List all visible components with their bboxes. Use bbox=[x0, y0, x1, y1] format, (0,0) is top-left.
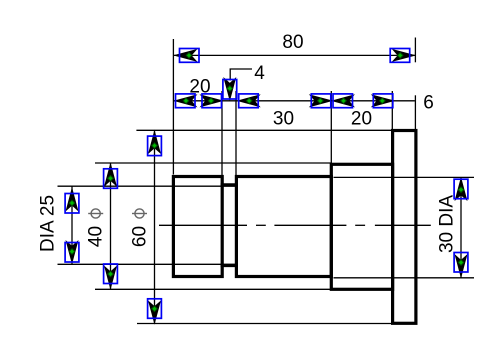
leader for dim 4 bbox=[230, 69, 252, 81]
svg-text:30: 30 bbox=[273, 109, 294, 130]
part outline: flange (dia 60, width 6) bbox=[393, 131, 416, 324]
arrow 80 right bbox=[390, 49, 414, 63]
dimension line DIA25 bbox=[71, 186, 73, 264]
dimension line 60 bbox=[154, 130, 156, 323]
arrow DIA25 down bbox=[65, 242, 79, 263]
phi symbol for 40 bbox=[88, 209, 103, 218]
extension line flange left bbox=[391, 91, 393, 130]
part outline: cylinder 1 (dia 30, len 20) bbox=[173, 177, 222, 277]
arrow 20 right bbox=[201, 94, 222, 108]
svg-text:60: 60 bbox=[130, 226, 151, 247]
arrow 60 up bbox=[148, 132, 162, 156]
groove bottom edge bbox=[221, 264, 238, 267]
arrow 20 left bbox=[175, 94, 196, 108]
arrow 80 left bbox=[175, 49, 199, 63]
extension line 30DIA bottom bbox=[334, 277, 475, 279]
extension line 40 bottom bbox=[95, 288, 331, 290]
arrow 20b right bbox=[372, 94, 393, 108]
arrow 20b left bbox=[333, 94, 354, 108]
extension line 60 top bbox=[136, 129, 392, 131]
part outline: cylinder 2 (dia 30, len 30) bbox=[236, 177, 331, 277]
arrow 30 right bbox=[310, 94, 331, 108]
phi symbol for 60 bbox=[132, 209, 147, 218]
svg-text:4: 4 bbox=[254, 63, 265, 84]
extension line flange right for 80 dim bbox=[414, 38, 416, 63]
svg-text:40: 40 bbox=[86, 226, 107, 247]
arrow 60 down bbox=[148, 299, 162, 323]
svg-text:DIA 25: DIA 25 bbox=[38, 195, 59, 252]
groove (dia 25, width 4) top edge bbox=[221, 183, 238, 186]
extension line DIA25 top bbox=[58, 185, 237, 187]
arrow 30DIA down bbox=[454, 253, 468, 277]
svg-text:6: 6 bbox=[423, 93, 434, 114]
arrow 40 up bbox=[104, 164, 118, 188]
dimension line 40 bbox=[110, 163, 112, 289]
svg-text:30 DIA: 30 DIA bbox=[437, 195, 458, 253]
arrow 30DIA up bbox=[454, 179, 468, 200]
svg-text:80: 80 bbox=[282, 32, 303, 53]
extension line flange right for 6 dim bbox=[414, 95, 416, 130]
arrow 40 down bbox=[104, 264, 118, 288]
extension line 40 top bbox=[95, 162, 331, 164]
part outline: cylinder 3 (dia 40, len 20) bbox=[331, 164, 392, 289]
dimension line 80 bbox=[173, 54, 415, 56]
dimension line row 20/4/30/20/6 bbox=[173, 100, 415, 102]
dimension line 30DIA bbox=[460, 177, 462, 277]
extension line cylinder3 left bbox=[330, 91, 332, 163]
svg-text:20: 20 bbox=[351, 109, 372, 130]
arrow 4 down bbox=[223, 79, 237, 100]
arrow DIA25 up bbox=[65, 189, 79, 213]
centerline dash segments bbox=[159, 224, 431, 226]
arrow 30 left bbox=[238, 94, 259, 108]
extension line groove left bbox=[221, 91, 223, 175]
extension line DIA25 bottom bbox=[58, 263, 237, 265]
extension line 30DIA top bbox=[334, 176, 475, 178]
extension line left of part (80/20 dims) bbox=[172, 39, 174, 175]
extension line 60 bottom bbox=[137, 323, 393, 325]
extension line groove right bbox=[235, 91, 237, 175]
